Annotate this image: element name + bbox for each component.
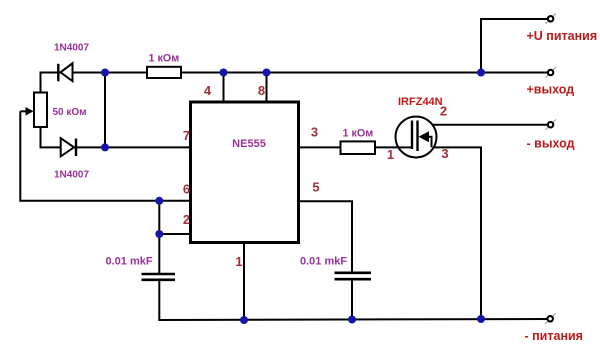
svg-text:2: 2 xyxy=(183,212,190,227)
wire: C2 lower lead to bottom rail xyxy=(351,279,353,320)
svg-text:IRFZ44N: IRFZ44N xyxy=(398,96,443,108)
svg-text:+выход: +выход xyxy=(527,83,575,97)
terminal - выход xyxy=(546,119,557,129)
junction dot at +U riser xyxy=(477,69,485,77)
potentiometer R3 50 кОм body xyxy=(34,93,47,128)
svg-text:1: 1 xyxy=(387,147,394,162)
wire: branch to pin 2 xyxy=(159,201,190,234)
svg-text:1N4007: 1N4007 xyxy=(54,170,89,181)
junction dot at pin 2 branch xyxy=(155,230,163,238)
svg-text:1N4007: 1N4007 xyxy=(54,43,89,54)
wire: MOSFET source down to bottom rail xyxy=(432,147,482,319)
wire: pin 8 stub xyxy=(266,73,268,103)
Q1 source arrow xyxy=(419,131,430,142)
junction dot at pin 6 row branch xyxy=(155,197,163,205)
wire: branch down to C1 xyxy=(158,234,160,273)
terminal +выход xyxy=(546,67,557,78)
svg-text:2: 2 xyxy=(440,104,447,119)
junction dot at MOSFET source / bottom rail xyxy=(477,315,485,323)
svg-text:NE555: NE555 xyxy=(232,138,266,150)
wire: pin 5 row down to C2 xyxy=(299,201,353,272)
terminal - питания xyxy=(545,314,556,325)
svg-text:6: 6 xyxy=(183,182,190,197)
junction dot at D2/pin7 row xyxy=(101,143,109,151)
resistor R2 1 кОм (gate) xyxy=(341,141,376,154)
svg-text:- питания: - питания xyxy=(525,329,583,343)
MOSFET Q1 IRFZ44N xyxy=(396,117,437,158)
resistor R1 1 кОм (top) xyxy=(147,67,181,78)
wire: pin 4 stub xyxy=(223,73,225,103)
svg-text:50 кОм: 50 кОм xyxy=(53,107,87,118)
wire: junction column between D1 and D2 xyxy=(104,73,106,148)
svg-text:+U питания: +U питания xyxy=(527,29,598,43)
wire: MOSFET drain to - выход terminal xyxy=(418,124,549,126)
wire: wiper drop and pin 6 row xyxy=(20,111,190,201)
Q1 channel bar xyxy=(416,121,418,152)
IC U1 NE555 body xyxy=(191,102,299,243)
svg-text:7: 7 xyxy=(183,128,190,143)
junction dot at C2 / bottom rail xyxy=(348,316,356,324)
junction dot at pin 1 / bottom rail xyxy=(240,316,248,324)
svg-text:1 кОм: 1 кОм xyxy=(149,53,180,65)
capacitor C2 0.01 mkF xyxy=(335,273,372,279)
diode D1 1N4007 (top, cathode left) xyxy=(58,63,72,81)
Q1 gate bar xyxy=(411,121,413,150)
svg-text:3: 3 xyxy=(441,146,448,161)
svg-text:- выход: - выход xyxy=(527,137,575,151)
diode D2 1N4007 (bottom, cathode right) xyxy=(61,138,76,156)
Q1 circle xyxy=(396,117,437,158)
junction dot at D1/bus xyxy=(101,69,109,77)
wire: C1 lower lead to bottom rail xyxy=(158,280,160,320)
wire: pin 1 stub down to bottom rail xyxy=(243,243,245,321)
svg-text:0.01 mkF: 0.01 mkF xyxy=(300,256,347,268)
terminal +U питания xyxy=(546,14,557,25)
junction dot at pin 4 tap xyxy=(220,69,228,77)
svg-text:4: 4 xyxy=(204,83,212,98)
svg-text:1 кОм: 1 кОм xyxy=(343,128,374,140)
junction dot at pin 8 tap xyxy=(263,69,271,77)
wire: pin 3 row to MOSFET gate xyxy=(299,146,413,148)
potentiometer wiper arrow xyxy=(20,110,27,112)
capacitor C1 0.01 mkF xyxy=(142,274,176,280)
svg-text:3: 3 xyxy=(311,125,318,140)
svg-text:5: 5 xyxy=(312,180,319,195)
svg-text:8: 8 xyxy=(258,83,265,98)
wire: vertical riser to +U питания terminal xyxy=(481,19,548,73)
wire: bottom rail to - питания terminal xyxy=(158,319,548,320)
wire: top bus from D1 corner to +vыход terminal xyxy=(41,73,549,93)
Q1 gate wire inside circle xyxy=(398,146,412,148)
wire: pin 7 row through D2 xyxy=(41,127,191,147)
svg-text:0.01 mkF: 0.01 mkF xyxy=(106,256,153,268)
svg-text:1: 1 xyxy=(235,254,242,269)
